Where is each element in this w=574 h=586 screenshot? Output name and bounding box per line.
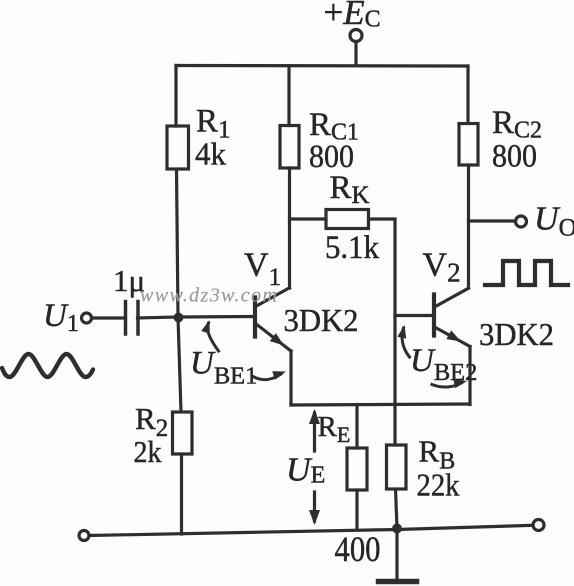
svg-text:400: 400 <box>335 529 381 569</box>
wire: RE top lead <box>355 405 358 449</box>
transistor V2 emitter stroke <box>435 327 471 347</box>
svg-text:3DK2: 3DK2 <box>479 316 554 352</box>
svg-text:5.1k: 5.1k <box>325 230 379 266</box>
wire: capacitor to input node <box>138 317 179 318</box>
wire: RC2 bottom lead to V2 collector <box>467 165 470 288</box>
wire: RC2 top lead <box>466 66 469 124</box>
capacitor C 1u plates <box>124 302 128 335</box>
bottom-left terminal circle <box>79 531 89 541</box>
bottom-right terminal circle <box>533 520 544 531</box>
resistor RE <box>347 448 367 490</box>
wire: R2 top lead from input node <box>178 317 181 412</box>
label 3DK2 for V1 <box>284 303 359 338</box>
transistor V1 collector stroke <box>256 288 290 307</box>
resistor RK <box>326 210 369 229</box>
resistor RB <box>387 445 407 489</box>
wire: bottom ground rail <box>89 525 533 535</box>
svg-text:UE: UE <box>286 452 325 489</box>
power terminal +EC <box>350 30 362 42</box>
node input junction dot <box>174 313 184 323</box>
wire: RE bottom lead <box>355 490 358 529</box>
svg-text:3DK2: 3DK2 <box>284 303 359 338</box>
label UBE1 with arrows <box>190 346 257 390</box>
square wave output symbol <box>485 261 568 285</box>
label V1 <box>244 247 281 292</box>
resistor RC1 <box>280 126 299 169</box>
label input U1 <box>43 298 79 337</box>
svg-text:800: 800 <box>492 139 537 175</box>
wire: EC terminal stem <box>354 42 357 66</box>
wire: RB bottom lead <box>396 489 398 529</box>
wire: R1 top lead <box>174 66 177 127</box>
transistor V2 collector stroke <box>435 288 469 307</box>
sine wave input symbol <box>2 354 93 377</box>
output terminal circle <box>516 216 527 227</box>
wire: V2 base wire <box>395 314 432 317</box>
ground <box>395 529 398 578</box>
wire: V1 base wire from input node <box>178 315 253 319</box>
resistor R1 <box>167 126 189 169</box>
svg-text:RK: RK <box>330 170 370 209</box>
wire: top supply rail <box>176 64 468 68</box>
resistor R2 <box>173 412 193 454</box>
wire: RC1 bottom lead to V1 collector <box>288 168 291 288</box>
wire: RC1 top lead <box>287 66 290 126</box>
wire: input terminal to capacitor <box>92 316 124 319</box>
wire: V2 emitter down lead <box>468 347 471 405</box>
wire: RK right lead down to V2 base and RB <box>369 219 396 445</box>
svg-text:V2: V2 <box>423 247 461 288</box>
label UBE2 with arrows <box>410 343 477 386</box>
transistor V1 base bar <box>253 298 257 337</box>
input terminal circle <box>82 313 92 323</box>
label V2 <box>423 247 461 288</box>
wire: RK left lead <box>290 217 327 220</box>
transistor V2 emitter arrowhead <box>446 330 463 346</box>
label 3DK2 for V2 <box>479 316 554 352</box>
wire: emitter rail <box>291 404 470 405</box>
svg-text:2k: 2k <box>134 434 162 469</box>
svg-text:UBE2: UBE2 <box>410 343 477 386</box>
svg-text:UBE1: UBE1 <box>190 346 257 390</box>
transistor V1 emitter arrowhead <box>270 333 287 349</box>
svg-text:+EC: +EC <box>324 0 381 33</box>
transistor V1 emitter stroke <box>256 324 292 352</box>
wire: R2 bottom lead <box>180 454 183 534</box>
wire: output tap <box>469 219 516 222</box>
svg-text:U1: U1 <box>43 298 79 337</box>
svg-text:RE: RE <box>318 411 351 447</box>
wire: R1 bottom lead to input node <box>177 170 179 318</box>
label UO <box>534 201 574 242</box>
label UE with measurement arrows <box>286 452 325 489</box>
svg-text:UO: UO <box>534 201 574 242</box>
svg-text:www.dz3w.com: www.dz3w.com <box>140 285 278 307</box>
resistor RC2 <box>459 124 478 166</box>
transistor V2 base bar <box>432 295 436 336</box>
wire: V1 emitter down lead <box>289 351 292 405</box>
svg-text:22k: 22k <box>417 467 460 503</box>
node ground junction dot <box>392 524 402 534</box>
watermark <box>140 285 278 307</box>
svg-text:4k: 4k <box>195 136 226 172</box>
label 400 <box>335 529 381 569</box>
power label +EC <box>324 0 381 33</box>
